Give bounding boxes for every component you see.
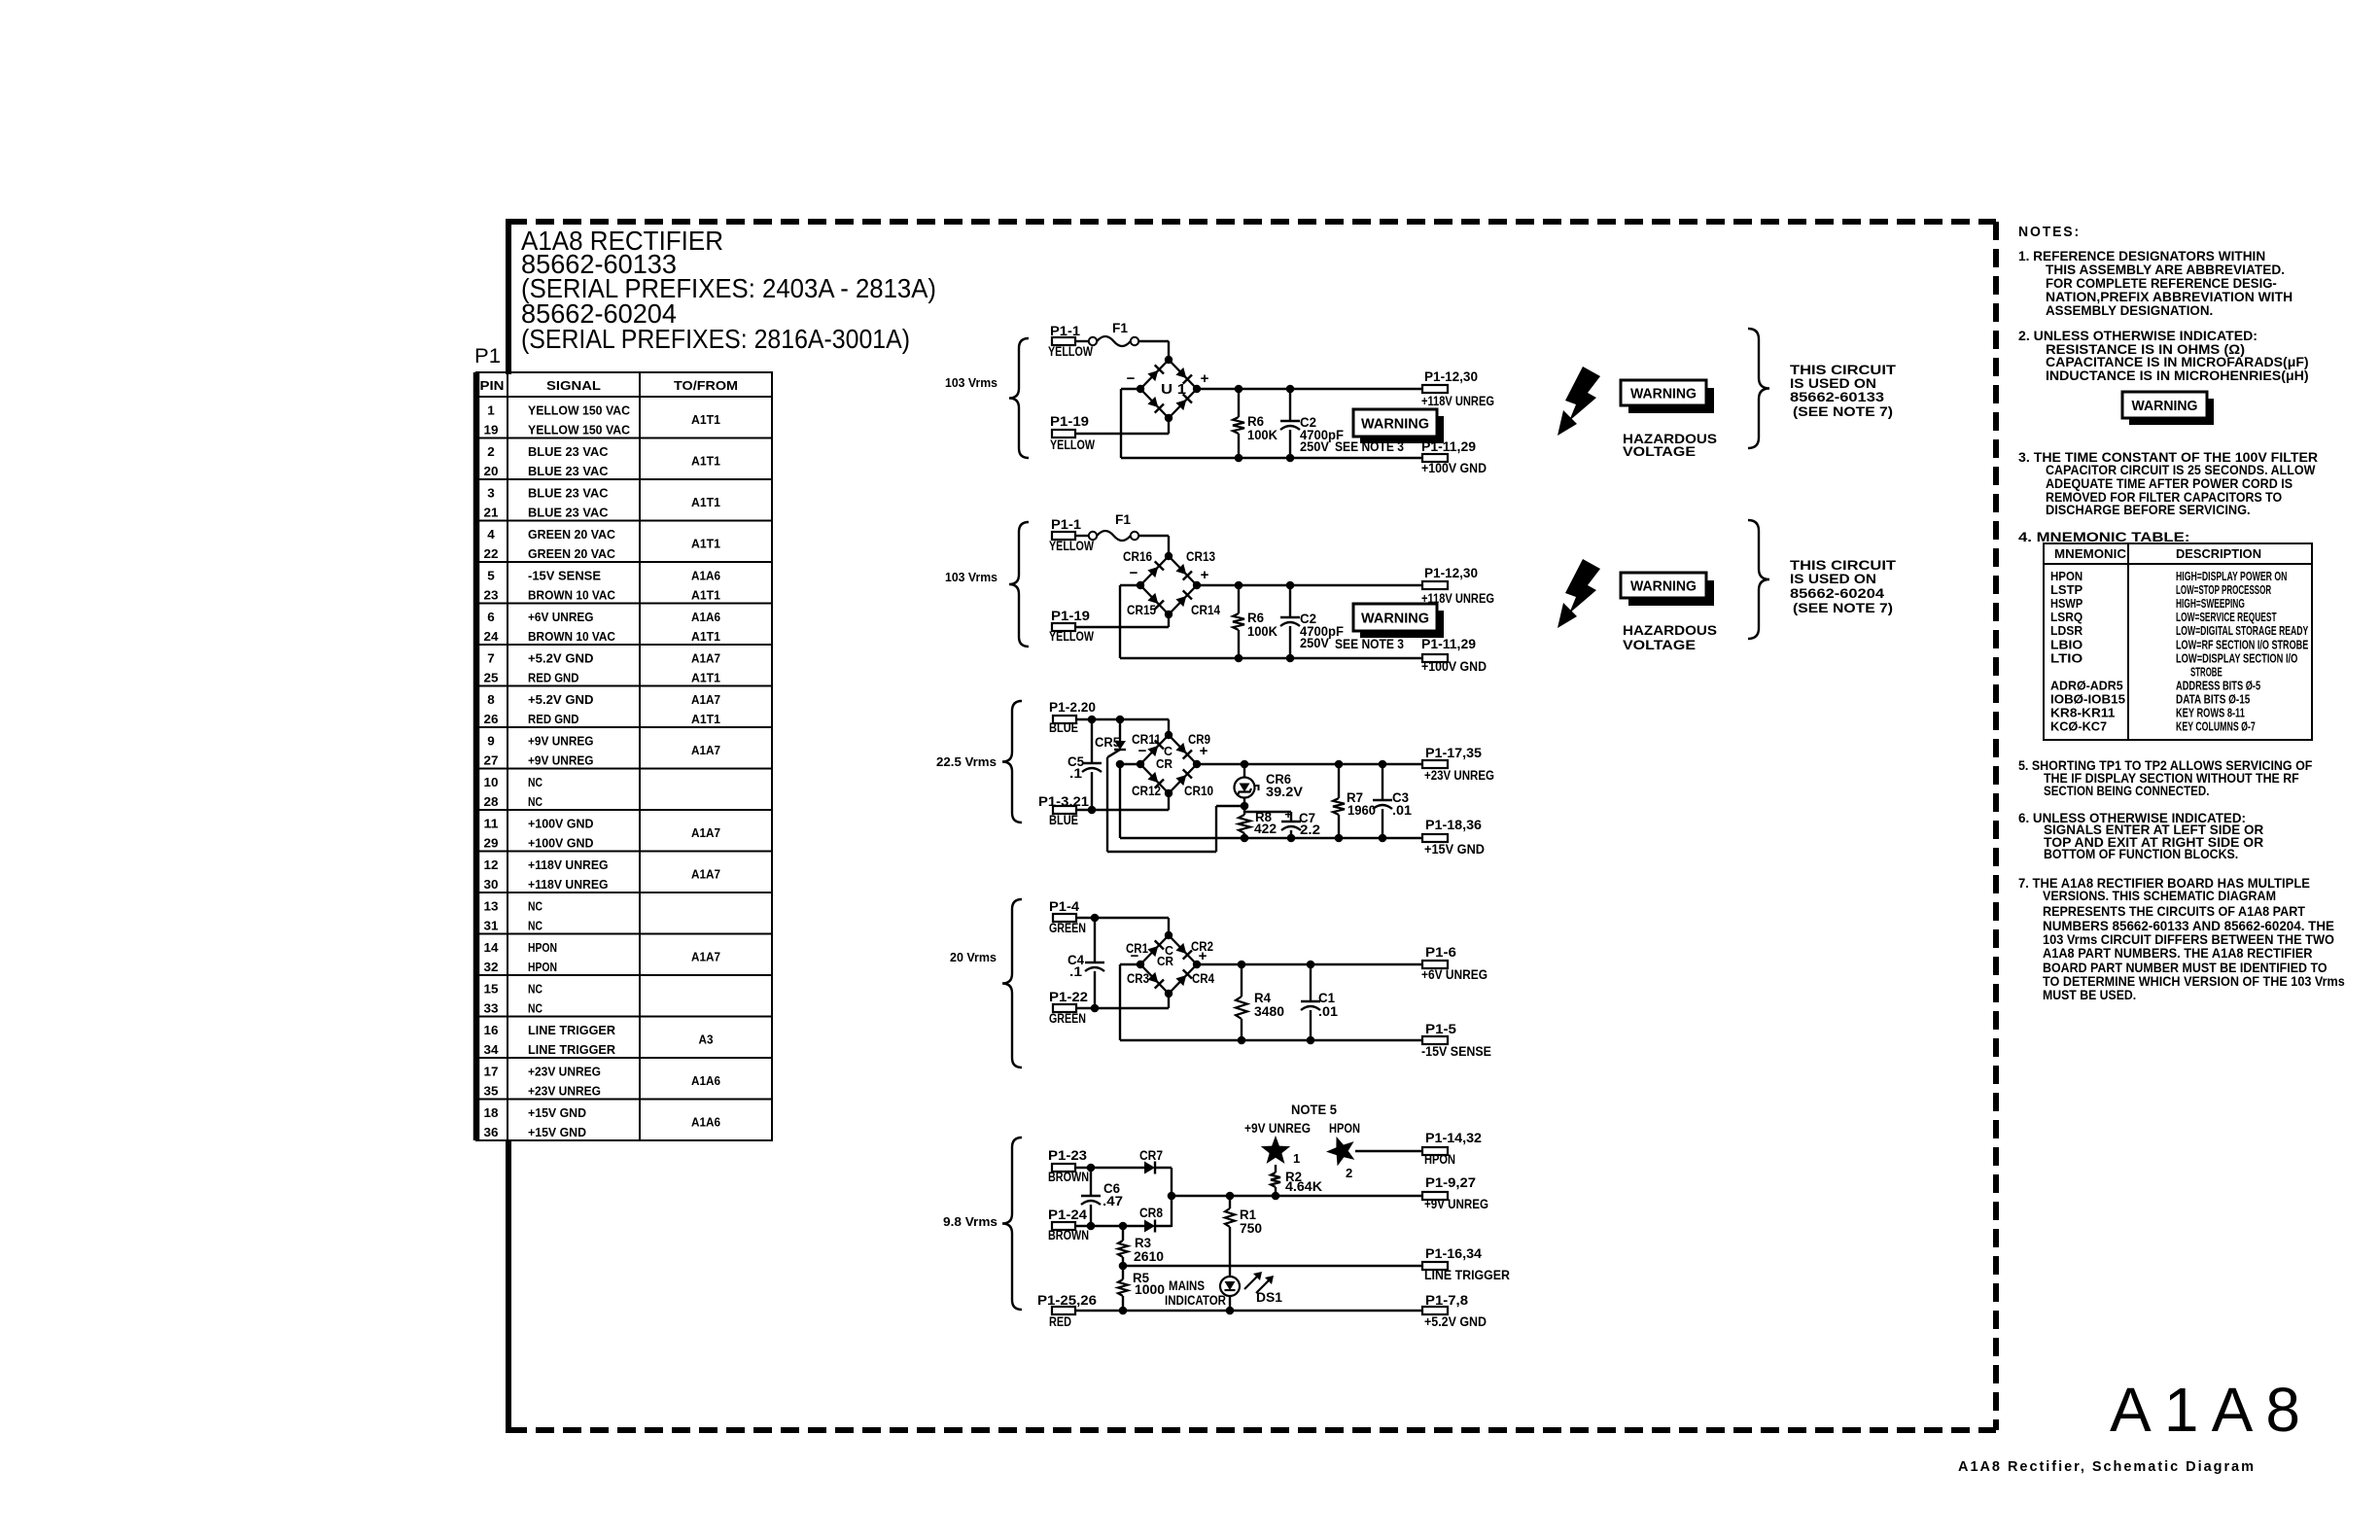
svg-text:22.5 Vrms: 22.5 Vrms xyxy=(936,754,997,769)
svg-text:A1T1: A1T1 xyxy=(691,495,720,509)
svg-text:750: 750 xyxy=(1240,1221,1262,1236)
svg-text:33: 33 xyxy=(484,1001,499,1016)
svg-text:KR8-KR11: KR8-KR11 xyxy=(2050,707,2115,720)
svg-text:CR13: CR13 xyxy=(1186,549,1215,564)
svg-text:KCØ-KC7: KCØ-KC7 xyxy=(2050,720,2107,734)
svg-text:+: + xyxy=(1284,807,1292,822)
svg-text:BLUE 23 VAC: BLUE 23 VAC xyxy=(528,464,609,478)
svg-text:YELLOW: YELLOW xyxy=(1048,344,1093,359)
svg-text:CR: CR xyxy=(1157,954,1174,968)
svg-text:F1: F1 xyxy=(1115,512,1131,527)
svg-text:A1T1: A1T1 xyxy=(691,454,720,469)
svg-text:.1: .1 xyxy=(1069,766,1083,781)
svg-text:BOTTOM OF FUNCTION BLOCKS.: BOTTOM OF FUNCTION BLOCKS. xyxy=(2044,846,2238,861)
svg-text:+5.2V GND: +5.2V GND xyxy=(1424,1314,1487,1329)
svg-text:P1-19: P1-19 xyxy=(1051,609,1090,623)
svg-text:P1-14,32: P1-14,32 xyxy=(1425,1131,1482,1145)
svg-text:NC: NC xyxy=(528,919,542,933)
svg-text:28: 28 xyxy=(484,794,499,809)
svg-text:A1A7: A1A7 xyxy=(691,692,720,707)
svg-text:P1-25,26: P1-25,26 xyxy=(1037,1293,1098,1308)
svg-text:CR12: CR12 xyxy=(1132,784,1161,798)
svg-text:25: 25 xyxy=(484,671,499,685)
svg-text:LOW=SERVICE REQUEST: LOW=SERVICE REQUEST xyxy=(2176,611,2277,624)
svg-text:GREEN: GREEN xyxy=(1049,1011,1086,1026)
svg-text:P1: P1 xyxy=(474,345,501,367)
svg-text:15: 15 xyxy=(484,982,499,997)
svg-text:+: + xyxy=(1201,370,1209,387)
svg-text:P1-17,35: P1-17,35 xyxy=(1425,746,1483,760)
svg-text:A1T1: A1T1 xyxy=(691,412,720,427)
svg-text:14: 14 xyxy=(484,940,500,955)
svg-text:BROWN 10 VAC: BROWN 10 VAC xyxy=(528,588,616,603)
svg-text:21: 21 xyxy=(484,506,499,520)
svg-text:CR8: CR8 xyxy=(1139,1206,1163,1220)
svg-text:+9V UNREG: +9V UNREG xyxy=(528,734,594,749)
svg-text:4. MNEMONIC TABLE:: 4. MNEMONIC TABLE: xyxy=(2018,529,2189,544)
svg-text:2: 2 xyxy=(487,444,495,459)
svg-text:MNEMONIC: MNEMONIC xyxy=(2054,547,2126,561)
svg-text:2: 2 xyxy=(1346,1166,1352,1180)
svg-text:16: 16 xyxy=(484,1023,499,1037)
svg-text:RED GND: RED GND xyxy=(528,712,579,726)
svg-text:VOLTAGE: VOLTAGE xyxy=(1623,443,1696,459)
svg-text:12: 12 xyxy=(484,857,499,872)
svg-text:+100V GND: +100V GND xyxy=(528,817,594,831)
svg-text:85662-60133: 85662-60133 xyxy=(1790,390,1885,404)
svg-text:250V: 250V xyxy=(1300,636,1329,650)
svg-text:WARNING: WARNING xyxy=(2132,398,2198,414)
svg-text:LOW=DISPLAY SECTION I/O: LOW=DISPLAY SECTION I/O xyxy=(2176,651,2298,665)
svg-text:A1A6: A1A6 xyxy=(691,1073,720,1088)
svg-text:A1T1: A1T1 xyxy=(691,671,720,685)
svg-text:NOTE 5: NOTE 5 xyxy=(1291,1102,1337,1117)
svg-text:INDUCTANCE IS IN MICROHENRIES(: INDUCTANCE IS IN MICROHENRIES(μH) xyxy=(2046,367,2309,383)
svg-text:R3: R3 xyxy=(1135,1236,1151,1250)
svg-text:+23V UNREG: +23V UNREG xyxy=(528,1084,601,1099)
svg-text:.47: .47 xyxy=(1102,1194,1123,1208)
svg-text:WARNING: WARNING xyxy=(1630,577,1697,594)
svg-text:BROWN: BROWN xyxy=(1048,1228,1089,1242)
svg-text:100K: 100K xyxy=(1247,428,1277,442)
svg-text:HIGH=DISPLAY POWER ON: HIGH=DISPLAY POWER ON xyxy=(2176,570,2287,583)
svg-text:+15V GND: +15V GND xyxy=(1424,842,1485,857)
svg-text:P1-9,27: P1-9,27 xyxy=(1425,1175,1476,1190)
svg-text:(SEE NOTE 7): (SEE NOTE 7) xyxy=(1793,601,1893,615)
svg-text:CR3: CR3 xyxy=(1127,971,1149,986)
svg-text:9: 9 xyxy=(487,734,495,749)
svg-text:WARNING: WARNING xyxy=(1361,415,1429,432)
svg-text:P1-6: P1-6 xyxy=(1425,945,1457,960)
svg-text:P1-1: P1-1 xyxy=(1050,324,1081,338)
svg-text:30: 30 xyxy=(484,877,499,892)
svg-text:HPON: HPON xyxy=(2050,570,2082,583)
svg-text:A1T1: A1T1 xyxy=(691,537,720,551)
svg-text:A1A7: A1A7 xyxy=(691,651,720,666)
svg-text:103 Vrms: 103 Vrms xyxy=(945,570,997,584)
svg-text:.01: .01 xyxy=(1318,1004,1339,1019)
svg-text:LSTP: LSTP xyxy=(2050,583,2082,597)
svg-text:CR9: CR9 xyxy=(1188,732,1210,747)
svg-text:MAINS: MAINS xyxy=(1169,1278,1205,1293)
svg-text:LBIO: LBIO xyxy=(2050,638,2083,651)
svg-text:P1-22: P1-22 xyxy=(1049,990,1088,1004)
svg-text:3: 3 xyxy=(487,486,495,501)
svg-text:1: 1 xyxy=(1293,1151,1300,1166)
svg-text:−: − xyxy=(1130,565,1138,581)
svg-text:VOLTAGE: VOLTAGE xyxy=(1623,637,1696,652)
svg-text:HPON: HPON xyxy=(1329,1121,1360,1136)
svg-text:−: − xyxy=(1127,370,1136,387)
svg-text:YELLOW 150 VAC: YELLOW 150 VAC xyxy=(528,403,631,418)
svg-text:A1A7: A1A7 xyxy=(691,825,720,840)
svg-text:HPON: HPON xyxy=(528,960,557,974)
svg-text:29: 29 xyxy=(484,836,499,851)
svg-text:DESCRIPTION: DESCRIPTION xyxy=(2176,547,2261,561)
svg-text:KEY ROWS 8-11: KEY ROWS 8-11 xyxy=(2176,707,2245,720)
svg-text:PIN: PIN xyxy=(480,379,505,393)
svg-text:+9V UNREG: +9V UNREG xyxy=(1244,1121,1311,1136)
svg-text:A3: A3 xyxy=(699,1032,714,1047)
svg-text:A1T1: A1T1 xyxy=(691,588,720,603)
svg-text:422: 422 xyxy=(1254,822,1277,836)
svg-text:DISCHARGE BEFORE SERVICING.: DISCHARGE BEFORE SERVICING. xyxy=(2046,502,2251,517)
svg-text:2.2: 2.2 xyxy=(1300,822,1320,837)
svg-text:250V: 250V xyxy=(1300,439,1329,454)
svg-text:P1-18,36: P1-18,36 xyxy=(1425,818,1483,832)
svg-text:NOTES:: NOTES: xyxy=(2018,224,2081,240)
svg-text:+: + xyxy=(1201,567,1209,583)
svg-text:C1: C1 xyxy=(1318,991,1335,1005)
svg-text:SECTION BEING CONNECTED.: SECTION BEING CONNECTED. xyxy=(2044,783,2209,798)
svg-text:CR2: CR2 xyxy=(1191,939,1213,954)
svg-text:32: 32 xyxy=(484,960,499,974)
svg-text:10: 10 xyxy=(484,775,499,789)
svg-text:-15V SENSE: -15V SENSE xyxy=(528,569,601,583)
svg-text:YELLOW: YELLOW xyxy=(1049,539,1094,553)
svg-text:+100V GND: +100V GND xyxy=(528,836,594,851)
svg-text:A 1 A 8: A 1 A 8 xyxy=(2110,1375,2300,1445)
svg-text:-15V SENSE: -15V SENSE xyxy=(1421,1044,1491,1059)
svg-text:P1-5: P1-5 xyxy=(1425,1022,1457,1036)
svg-text:LINE TRIGGER: LINE TRIGGER xyxy=(1424,1268,1510,1282)
svg-text:2610: 2610 xyxy=(1134,1249,1164,1264)
svg-text:A1A7: A1A7 xyxy=(691,867,720,882)
svg-text:DATA BITS Ø-15: DATA BITS Ø-15 xyxy=(2176,692,2250,706)
svg-text:.1: .1 xyxy=(1069,964,1083,979)
svg-text:R6: R6 xyxy=(1247,414,1264,429)
svg-text:A1A6: A1A6 xyxy=(691,1115,720,1130)
svg-text:REPRESENTS THE CIRCUITS OF A1A: REPRESENTS THE CIRCUITS OF A1A8 PART xyxy=(2043,903,2305,919)
svg-text:NC: NC xyxy=(528,775,542,789)
svg-text:+6V UNREG: +6V UNREG xyxy=(1421,967,1487,982)
svg-text:+15V GND: +15V GND xyxy=(528,1125,586,1139)
svg-text:P1-11,29: P1-11,29 xyxy=(1421,637,1476,651)
svg-text:NC: NC xyxy=(528,1001,542,1016)
svg-text:13: 13 xyxy=(484,899,499,914)
svg-text:MUST BE USED.: MUST BE USED. xyxy=(2043,987,2136,1002)
svg-text:7: 7 xyxy=(487,651,495,666)
svg-text:+6V UNREG: +6V UNREG xyxy=(528,610,594,624)
svg-text:BLUE 23 VAC: BLUE 23 VAC xyxy=(528,506,609,520)
svg-text:BLUE: BLUE xyxy=(1049,813,1078,827)
svg-text:23: 23 xyxy=(484,588,499,603)
svg-text:85662-60204: 85662-60204 xyxy=(1790,586,1885,601)
svg-text:IOBØ-IOB15: IOBØ-IOB15 xyxy=(2050,692,2125,706)
svg-text:CR5: CR5 xyxy=(1095,735,1120,750)
svg-text:+5.2V GND: +5.2V GND xyxy=(528,692,594,707)
svg-text:NC: NC xyxy=(528,982,542,997)
svg-text:LOW=RF SECTION I/O STROBE: LOW=RF SECTION I/O STROBE xyxy=(2176,638,2308,651)
svg-text:19: 19 xyxy=(484,423,499,437)
svg-text:P1-1: P1-1 xyxy=(1051,517,1082,532)
svg-text:18: 18 xyxy=(484,1105,499,1120)
svg-text:A1A8 Rectifier, Schematic Diag: A1A8 Rectifier, Schematic Diagram xyxy=(1958,1459,2254,1475)
svg-text:LDSR: LDSR xyxy=(2050,624,2082,638)
svg-text:R4: R4 xyxy=(1254,991,1271,1005)
svg-text:P1-2.20: P1-2.20 xyxy=(1049,700,1096,715)
svg-text:CR1: CR1 xyxy=(1126,941,1148,956)
svg-text:CR15: CR15 xyxy=(1127,603,1156,617)
svg-text:CR7: CR7 xyxy=(1139,1148,1163,1163)
svg-text:9.8 Vrms: 9.8 Vrms xyxy=(943,1214,997,1229)
svg-text:+118V UNREG: +118V UNREG xyxy=(528,877,609,892)
svg-text:103 Vrms: 103 Vrms xyxy=(945,375,997,390)
svg-text:THIS CIRCUIT: THIS CIRCUIT xyxy=(1790,558,1897,573)
svg-text:WARNING: WARNING xyxy=(1630,385,1697,402)
svg-text:KEY COLUMNS Ø-7: KEY COLUMNS Ø-7 xyxy=(2176,720,2256,734)
svg-text:1: 1 xyxy=(487,403,495,418)
svg-text:+23V UNREG: +23V UNREG xyxy=(1424,768,1494,783)
svg-text:YELLOW 150 VAC: YELLOW 150 VAC xyxy=(528,423,631,437)
svg-text:WARNING: WARNING xyxy=(1361,610,1429,626)
svg-text:24: 24 xyxy=(484,629,500,644)
svg-text:A1A6: A1A6 xyxy=(691,569,720,583)
svg-text:BROWN: BROWN xyxy=(1048,1170,1089,1184)
svg-text:P1-19: P1-19 xyxy=(1050,414,1089,429)
svg-text:A1A8 PART NUMBERS. THE A1A8 RE: A1A8 PART NUMBERS. THE A1A8 RECTIFIER xyxy=(2043,945,2313,961)
svg-text:P1-23: P1-23 xyxy=(1048,1148,1088,1163)
svg-text:20 Vrms: 20 Vrms xyxy=(950,950,997,964)
svg-text:LOW=DIGITAL STORAGE READY: LOW=DIGITAL STORAGE READY xyxy=(2176,624,2309,638)
svg-text:DS1: DS1 xyxy=(1256,1290,1283,1305)
svg-text:BLUE 23 VAC: BLUE 23 VAC xyxy=(528,444,609,459)
svg-text:+23V UNREG: +23V UNREG xyxy=(528,1065,601,1079)
svg-text:HPON: HPON xyxy=(1424,1152,1455,1167)
svg-text:CR: CR xyxy=(1156,756,1173,771)
svg-text:A1T1: A1T1 xyxy=(691,712,720,726)
svg-text:P1-7,8: P1-7,8 xyxy=(1425,1293,1469,1308)
svg-text:BLUE 23 VAC: BLUE 23 VAC xyxy=(528,486,609,501)
svg-text:LINE TRIGGER: LINE TRIGGER xyxy=(528,1023,616,1037)
svg-text:R6: R6 xyxy=(1247,611,1264,625)
svg-text:RED GND: RED GND xyxy=(528,671,579,685)
svg-text:R1: R1 xyxy=(1240,1207,1256,1222)
svg-text:F1: F1 xyxy=(1112,321,1128,335)
svg-text:U 1: U 1 xyxy=(1161,381,1186,398)
svg-text:NC: NC xyxy=(528,899,542,914)
svg-text:CR4: CR4 xyxy=(1192,971,1214,986)
svg-text:4.64K: 4.64K xyxy=(1285,1179,1322,1194)
svg-text:YELLOW: YELLOW xyxy=(1050,437,1095,452)
svg-text:ASSEMBLY DESIGNATION.: ASSEMBLY DESIGNATION. xyxy=(2046,302,2213,318)
svg-text:+5.2V GND: +5.2V GND xyxy=(528,651,594,666)
svg-text:A1A7: A1A7 xyxy=(691,743,720,757)
svg-text:IS USED ON: IS USED ON xyxy=(1790,376,1876,391)
svg-text:HIGH=SWEEPING: HIGH=SWEEPING xyxy=(2176,597,2245,611)
svg-text:+118V UNREG: +118V UNREG xyxy=(1421,394,1494,408)
svg-text:RED: RED xyxy=(1049,1314,1071,1329)
svg-text:P1-12,30: P1-12,30 xyxy=(1424,369,1478,384)
svg-text:20: 20 xyxy=(484,464,499,478)
svg-text:35: 35 xyxy=(484,1084,499,1099)
svg-text:+100V GND: +100V GND xyxy=(1421,659,1487,674)
svg-text:VERSIONS. THIS SCHEMATIC DIAGR: VERSIONS. THIS SCHEMATIC DIAGRAM xyxy=(2043,888,2276,903)
svg-text:LSRQ: LSRQ xyxy=(2050,611,2082,624)
svg-text:SEE NOTE 3: SEE NOTE 3 xyxy=(1335,637,1404,651)
svg-text:HAZARDOUS: HAZARDOUS xyxy=(1623,622,1717,638)
svg-text:34: 34 xyxy=(484,1042,500,1057)
svg-text:+15V GND: +15V GND xyxy=(528,1105,586,1120)
svg-text:GREEN 20 VAC: GREEN 20 VAC xyxy=(528,546,616,561)
svg-text:ADDRESS BITS Ø-5: ADDRESS BITS Ø-5 xyxy=(2176,679,2260,692)
svg-text:26: 26 xyxy=(484,712,499,726)
svg-text:CR16: CR16 xyxy=(1123,549,1152,564)
svg-text:17: 17 xyxy=(484,1065,499,1079)
svg-text:SIGNAL: SIGNAL xyxy=(546,379,601,393)
svg-text:BROWN 10 VAC: BROWN 10 VAC xyxy=(528,629,616,644)
svg-text:22: 22 xyxy=(484,546,499,561)
svg-text:+9V UNREG: +9V UNREG xyxy=(1424,1197,1488,1211)
svg-text:LTIO: LTIO xyxy=(2050,651,2083,665)
svg-text:+118V UNREG: +118V UNREG xyxy=(528,857,609,872)
svg-text:6: 6 xyxy=(487,610,495,624)
svg-text:A1A6: A1A6 xyxy=(691,610,720,624)
svg-text:GREEN: GREEN xyxy=(1049,921,1086,935)
svg-text:LINE TRIGGER: LINE TRIGGER xyxy=(528,1042,616,1057)
svg-text:P1-4: P1-4 xyxy=(1049,899,1080,914)
svg-text:GREEN 20 VAC: GREEN 20 VAC xyxy=(528,527,616,542)
svg-text:(SERIAL PREFIXES: 2816A-3001A): (SERIAL PREFIXES: 2816A-3001A) xyxy=(521,324,910,354)
svg-text:36: 36 xyxy=(484,1125,499,1139)
svg-text:5: 5 xyxy=(487,569,495,583)
svg-text:39.2V: 39.2V xyxy=(1266,785,1303,799)
svg-text:11: 11 xyxy=(484,817,499,831)
svg-text:+9V UNREG: +9V UNREG xyxy=(528,753,594,768)
svg-text:ADRØ-ADR5: ADRØ-ADR5 xyxy=(2050,679,2123,692)
svg-text:4: 4 xyxy=(487,527,495,542)
svg-text:P1-24: P1-24 xyxy=(1048,1207,1088,1222)
svg-text:1960: 1960 xyxy=(1347,803,1376,818)
svg-text:A1T1: A1T1 xyxy=(691,629,720,644)
svg-text:P1-16,34: P1-16,34 xyxy=(1425,1246,1483,1261)
svg-text:STROBE: STROBE xyxy=(2190,665,2222,679)
svg-text:HPON: HPON xyxy=(528,940,557,955)
svg-text:100K: 100K xyxy=(1247,624,1277,639)
svg-text:3480: 3480 xyxy=(1254,1004,1284,1019)
svg-text:.01: .01 xyxy=(1392,803,1413,818)
svg-text:NC: NC xyxy=(528,794,542,809)
svg-text:1000: 1000 xyxy=(1135,1282,1165,1297)
svg-text:(SEE NOTE 7): (SEE NOTE 7) xyxy=(1793,404,1893,419)
svg-text:TO/FROM: TO/FROM xyxy=(674,379,738,393)
svg-text:8: 8 xyxy=(487,692,495,707)
svg-text:31: 31 xyxy=(484,919,499,933)
svg-text:+100V GND: +100V GND xyxy=(1421,461,1487,475)
svg-text:BLUE: BLUE xyxy=(1049,720,1078,735)
svg-text:HSWP: HSWP xyxy=(2050,597,2082,611)
svg-text:27: 27 xyxy=(484,753,499,768)
svg-text:THIS CIRCUIT: THIS CIRCUIT xyxy=(1790,363,1897,377)
svg-text:CR14: CR14 xyxy=(1191,603,1220,617)
svg-text:P1-12,30: P1-12,30 xyxy=(1424,566,1478,580)
svg-text:A1A7: A1A7 xyxy=(691,950,720,964)
svg-text:IS USED ON: IS USED ON xyxy=(1790,572,1876,586)
svg-text:INDICATOR: INDICATOR xyxy=(1165,1293,1226,1308)
svg-text:LOW=STOP PROCESSOR: LOW=STOP PROCESSOR xyxy=(2176,583,2271,597)
svg-text:YELLOW: YELLOW xyxy=(1049,629,1094,644)
svg-text:CR11: CR11 xyxy=(1132,732,1161,747)
svg-text:CR10: CR10 xyxy=(1184,784,1213,798)
